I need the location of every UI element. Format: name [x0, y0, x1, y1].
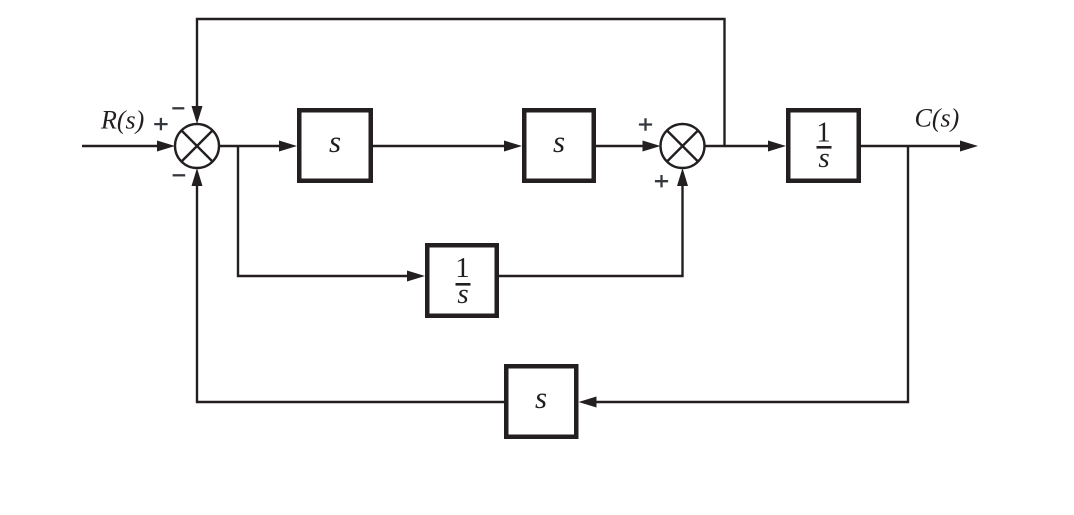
wire: input line from R(s) to summing junction S1 [82, 145, 158, 147]
arrowhead: output C(s) [960, 141, 978, 152]
sign: plus at S2 bottom input [655, 175, 668, 187]
value label 1/s in block G4 [455, 252, 470, 310]
summing junction S1 [175, 124, 219, 168]
block G1: s [299, 110, 371, 181]
summing junction S2 [661, 124, 705, 168]
wire: branch node after S1 down and right to middle block 1/s [238, 146, 409, 276]
wire: top feedback line from node after S2 back to S1 [197, 19, 725, 146]
arrowhead: into S1 from left [157, 141, 175, 152]
wire: S1 output to block G1 [219, 145, 281, 147]
sign: plus at S1 left input [154, 118, 167, 130]
wire: output branch node down to bottom feedback [596, 146, 908, 402]
sign: minus at S1 bottom input [173, 174, 186, 176]
svg-text:s: s [535, 380, 547, 415]
block G4: 1/s (middle branch) [427, 245, 497, 316]
svg-text:s: s [329, 124, 341, 159]
arrowhead: into bottom block s from right [579, 397, 597, 408]
svg-text:C(s): C(s) [915, 104, 960, 133]
arrowhead: into S2 from left [643, 141, 661, 152]
wire: block G1 to block G2 [373, 145, 506, 147]
arrowhead: into S1 from bottom (feedback) [192, 168, 203, 186]
block G5: s (bottom feedback) [506, 366, 576, 437]
arrowhead: into S1 from top (feedback) [192, 106, 203, 124]
wire: bottom block s to S1 bottom input [197, 185, 504, 402]
sign: plus at S2 left input [639, 118, 652, 130]
wire: block 1/s output to C(s) arrow [861, 145, 963, 147]
wire: block G2 to summing junction S2 [596, 145, 644, 147]
arrowhead: into middle block 1/s [407, 271, 425, 282]
block G3: 1/s (forward path integrator) [788, 110, 859, 181]
arrowhead: into S2 from bottom [677, 168, 688, 186]
wire: S2 output to block 1/s [705, 145, 771, 147]
sign: minus at S1 top input [172, 107, 184, 109]
svg-text:s: s [818, 142, 829, 174]
value label 1/s in block G3 [816, 117, 831, 174]
svg-text:s: s [457, 278, 468, 310]
svg-text:R(s): R(s) [100, 105, 144, 134]
svg-text:s: s [553, 124, 565, 159]
arrowhead: into block 1/s right [768, 141, 786, 152]
arrowhead: into block G1 [279, 141, 297, 152]
block G2: s [524, 110, 594, 181]
arrowhead: into block G2 [504, 141, 522, 152]
wire: middle block 1/s to S2 bottom input [499, 185, 683, 276]
